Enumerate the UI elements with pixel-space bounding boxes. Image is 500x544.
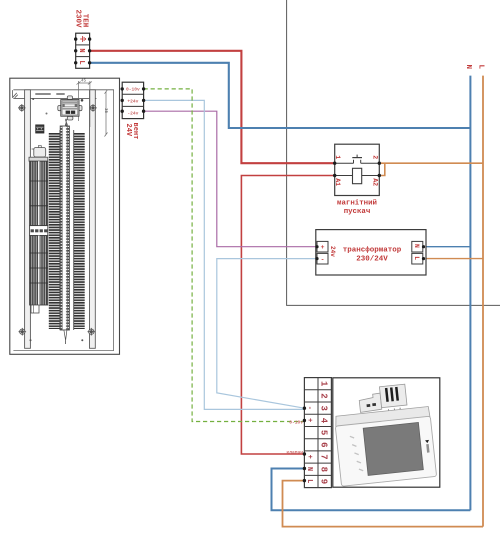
panel rail right (90, 90, 96, 349)
svg-text:4: 4 (319, 418, 329, 424)
svg-text:6: 6 (319, 442, 329, 447)
svg-text:230/24V: 230/24V (356, 256, 388, 264)
svg-text:магнітний: магнітний (337, 199, 377, 208)
wire orange thermostat terminal 9 to L bus (283, 481, 484, 527)
svg-text:35: 35 (103, 108, 107, 114)
svg-text:1: 1 (319, 381, 329, 387)
svg-text:N: N (413, 244, 420, 248)
svg-text:+24v: +24v (127, 98, 138, 104)
cabinet inner duct lines (14, 90, 114, 351)
svg-text:N: N (305, 467, 313, 471)
svg-text:-: - (321, 256, 325, 263)
panel rail left (25, 90, 31, 349)
svg-text:230V: 230V (74, 10, 82, 29)
svg-text:24v: 24v (329, 246, 336, 257)
svg-text:A2: A2 (372, 178, 379, 186)
svg-text:+: + (305, 418, 313, 422)
dimension 35 right (105, 90, 108, 137)
svg-text:клапан: клапан (286, 451, 303, 456)
svg-text:0-10v: 0-10v (126, 86, 140, 92)
svg-text:2: 2 (372, 155, 379, 159)
svg-text:+: + (305, 455, 313, 459)
svg-text:-24v: -24v (127, 111, 138, 117)
wire red TEN N to contactor 1 (90, 51, 335, 163)
sensor spike top of ladder (65, 122, 67, 127)
svg-text:45: 45 (81, 80, 87, 84)
transformer T1 230/24V (315, 230, 426, 275)
svg-text:1: 1 (334, 155, 341, 159)
svg-text:-: - (305, 406, 313, 410)
wire green dashed vent 0-10v to thermostat terminal 4 (144, 89, 305, 422)
svg-text:3: 3 (319, 406, 329, 411)
heating element fins right (74, 133, 85, 329)
left element bottom box (31, 305, 39, 313)
contactor K1 (магнітний пускач) (333, 144, 381, 195)
left element motor box (34, 148, 46, 158)
left element upper section (30, 161, 48, 225)
dimension 45 top (77, 81, 92, 127)
thermostat terminal strip X3 (303, 378, 332, 488)
svg-text:L: L (413, 256, 420, 260)
svg-text:пускач: пускач (344, 208, 371, 216)
svg-text:N: N (464, 65, 472, 70)
zone border line (287, 0, 500, 305)
svg-text:2: 2 (319, 393, 329, 398)
left element lower section (30, 236, 48, 305)
sensor pin below display (65, 122, 68, 131)
thermostat device (controller with display) (332, 378, 440, 487)
svg-text:трансформатор: трансформатор (343, 247, 402, 255)
wire light-blue vent +24v to thermostat terminal 3 (144, 100, 305, 409)
wire L bus vertical (482, 76, 484, 527)
svg-text:L: L (77, 60, 85, 64)
left element cap bar (29, 157, 48, 161)
mounting bolts (18, 104, 26, 112)
wire orange transformer L to L bus (424, 258, 484, 260)
wire orange contactor 2 to L bus (379, 162, 483, 164)
central ladder column (60, 126, 69, 330)
svg-text:+: + (321, 244, 325, 251)
svg-text:24V: 24V (124, 124, 132, 137)
needle below ladder (64, 330, 67, 341)
wire red contactor A1 to thermostat terminal 7 (241, 176, 334, 455)
connector X2 vent 24V (121, 82, 146, 118)
wire orange contactor A2 jumper (379, 163, 385, 175)
wire light-blue transformer minus to thermostat terminal 3 (217, 259, 317, 409)
wire blue thermostat terminal 8 to N bus (272, 469, 471, 511)
relay block (36, 125, 44, 133)
heating element fins left (49, 133, 60, 329)
left element middle band (30, 226, 48, 236)
svg-text:9: 9 (319, 479, 329, 484)
wire blue TEN L to N bus (90, 63, 471, 128)
svg-text:8: 8 (319, 467, 329, 472)
wire blue transformer N to N bus (424, 246, 471, 248)
svg-text:N: N (77, 48, 85, 52)
svg-text:5: 5 (319, 430, 329, 435)
svg-text:L: L (476, 65, 484, 70)
wire N bus vertical (469, 76, 471, 511)
svg-text:L: L (305, 479, 313, 483)
wire magenta vent -24v to transformer + (144, 111, 317, 247)
heater cabinet outline (10, 78, 120, 354)
corner bracket mark (13, 91, 18, 98)
connector X1 TEN 230V (74, 33, 91, 68)
svg-text:A1: A1 (334, 178, 341, 186)
cabinet top band (14, 89, 114, 91)
display unit on cabinet (58, 96, 82, 120)
svg-text:0-10v: 0-10v (289, 419, 303, 425)
svg-text:7: 7 (319, 454, 329, 459)
